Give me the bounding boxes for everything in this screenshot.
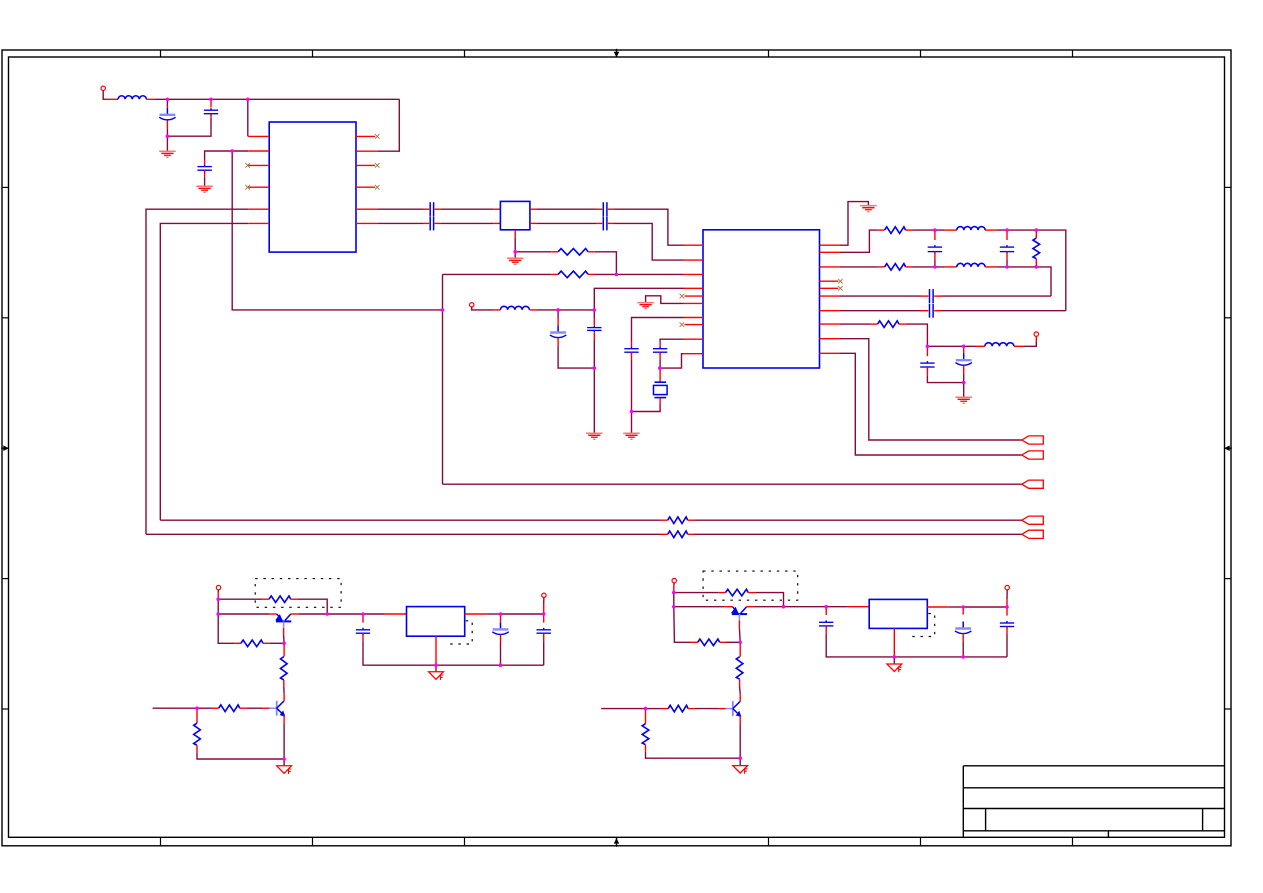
pin stub right of resistor R17 [688, 708, 695, 710]
port P6 (reg2 output) [1005, 585, 1009, 589]
crystal Y2 [654, 382, 668, 397]
capacitor C14 (series) [930, 289, 934, 303]
VR2 ground pin [893, 628, 895, 657]
wire crystal junction to U2 pin10 [660, 354, 684, 368]
junction VR2 ground [893, 655, 897, 659]
Q4 collector stub [739, 694, 741, 701]
top border center arrow [614, 49, 620, 57]
pin stub left of resistor R14 [719, 592, 726, 594]
wire RF loop vertical [442, 274, 444, 484]
wire C4 to oscillator Y1 [441, 208, 494, 210]
wire C13 bottom [1006, 260, 1008, 267]
pin stub top of resistor R5 [1035, 230, 1037, 238]
pin stub bottom of capacitor C18 [362, 633, 364, 641]
wire R14 to collector node [755, 593, 783, 607]
inductor L5 [985, 343, 1014, 347]
red stub P3 [217, 592, 219, 599]
resistor R5 [1033, 238, 1040, 259]
resistor R17 [668, 705, 688, 712]
resistor R16 [736, 657, 743, 679]
wire divider to R17 [646, 708, 662, 710]
capacitor C13 [1000, 245, 1014, 254]
red stub collector Q1 [291, 613, 299, 615]
wire C15 to row1 end [942, 310, 1066, 312]
pin stub top of capacitor C1 [166, 106, 168, 108]
capacitor C4 (series) [430, 202, 433, 216]
U1 pin 3 (left, no-connect) [248, 164, 269, 166]
pin stub left of resistor R6 [871, 323, 878, 325]
pin stub left of capacitor C5 [423, 222, 429, 224]
capacitor C6 (series) [603, 202, 607, 216]
pin stub bottom of capacitor C1 [166, 120, 168, 128]
pin stub right of capacitor C4 [435, 208, 441, 210]
wire U2 pin20 to ground [840, 202, 868, 246]
U2 pin 6 (left) [684, 302, 704, 304]
red stub base Q4 [718, 708, 726, 710]
connector CON3 [1022, 480, 1044, 488]
wire U1 pin6 rail to lower-left [160, 223, 248, 520]
junction RF net at loop [441, 308, 445, 312]
IC U2 [703, 230, 820, 368]
pin stub into Y1 lower-left [494, 222, 501, 224]
connector CON2 [1022, 451, 1044, 459]
pin stub top of capacitor C22 [962, 607, 964, 615]
pin stub left of inductor L1 [106, 98, 119, 100]
U2 pin 17 (right, no-connect) [820, 280, 839, 282]
wire Y1 bottom to ground junction [514, 238, 516, 252]
pin stub top of capacitor C20 [543, 614, 545, 623]
no-connect X on U1 pin 9 [375, 185, 380, 190]
capacitor C9 [587, 326, 601, 333]
pin stub top of capacitor C10 [631, 342, 633, 348]
pin stub bottom of capacitor C16 [926, 367, 928, 375]
pin stub top of resistor R16 [739, 642, 741, 657]
pin stub left of resistor R15 [691, 641, 698, 643]
pin stub top of resistor R11 [283, 643, 285, 656]
wire junction to ground [631, 412, 633, 434]
wire R11 to Q2 collector [283, 687, 285, 694]
junction filter row2 at R5 [1035, 265, 1039, 269]
red stub base Q3 [738, 621, 740, 629]
wire L2 to junctions [536, 309, 594, 311]
junction reg2 VOUT at C23 [1005, 605, 1009, 609]
pin stub left of resistor R12 [212, 707, 219, 709]
no-connect X on U1 pin 12 [375, 134, 380, 139]
wire U1 pin7 to series cap C5 [377, 222, 423, 224]
wire R1 to U2 pin3 net [595, 252, 617, 275]
wire R13 to ground rail [197, 752, 284, 759]
port P5 (reg2 input) [672, 578, 676, 582]
pin stub bottom of capacitor C20 [543, 633, 545, 641]
wire U2 pin12 to connector CON1 [840, 339, 1022, 440]
resistor R3 [885, 227, 906, 234]
wire VOUT to C20 [501, 613, 544, 615]
pin stub top of capacitor C11 [659, 342, 661, 348]
wire R2 junction to U2 pin3 [595, 273, 684, 275]
wire P3 down [217, 590, 219, 593]
port P3 (reg1 input) [216, 585, 220, 589]
pin stub bottom of capacitor C17 [963, 366, 965, 374]
wire base net corner R [674, 607, 691, 643]
wire C11 bottom to crystal junction [659, 359, 661, 368]
resistor R13 [194, 723, 201, 745]
VR2 output pin [927, 606, 948, 608]
capacitor C20 [537, 628, 551, 635]
U1 pin 5 (left) [248, 208, 269, 210]
red stub emitter Q3 [725, 606, 733, 608]
port P4 (reg1 output) [542, 593, 546, 597]
U1 pin 10 (right, no-connect) [356, 164, 375, 166]
Y1 bottom pin stub [514, 230, 516, 238]
capacitor C23 [1000, 621, 1014, 629]
junction R1/R2 net [615, 273, 619, 277]
inductor L3 [957, 227, 985, 231]
port P1 (top-left input) [101, 86, 105, 90]
wire top rail drop to U1 pin1 [247, 99, 249, 136]
pin stub left of resistor R3 [878, 229, 885, 231]
no-connect X on U2 pin 8 [680, 322, 685, 327]
wire RF loop to connector CON3 [443, 483, 1022, 485]
U2 pin 5 (left, no-connect) [685, 295, 704, 297]
U1 pin 1 (left) [248, 135, 269, 137]
pin stub top of capacitor C21 [825, 607, 827, 615]
wire R18 to ground rail R [646, 752, 741, 759]
capacitor C18 [356, 628, 370, 635]
pin stub bottom of capacitor C8 [557, 338, 559, 346]
red stub base Q2 [262, 707, 270, 709]
pin stub right of resistor R12 [240, 707, 247, 709]
capacitor C17 (electrolytic) [956, 353, 972, 365]
junction lower filter ground [962, 381, 966, 385]
pin stub right of capacitor C7 [608, 222, 614, 224]
pin stub bottom of resistor R5 [1035, 259, 1037, 267]
junction lower filter at C17 [962, 345, 966, 349]
voltage regulator VR1 [407, 607, 465, 637]
resistor R1 [558, 249, 588, 256]
wire U2 pin18 to R4 [840, 266, 878, 268]
pin stub top of resistor R13 [196, 708, 198, 723]
pin stub bottom of capacitor C23 [1006, 627, 1008, 635]
wire Q2 emitter down [283, 724, 285, 759]
wire C2 bottom loop to junction [167, 119, 211, 137]
wire C20 bottom [543, 641, 545, 665]
resistor R12 [219, 705, 240, 712]
U2 pin 13 (right) [820, 323, 841, 325]
pin stub bottom of capacitor C11 [659, 352, 661, 359]
oscillator Y1 box [500, 201, 530, 229]
resistor R8 [668, 531, 688, 538]
wire VOUT to C23 [963, 606, 1007, 608]
pin stub left of inductor L4 [945, 266, 957, 268]
transistor Q3 (PNP pass) [732, 607, 747, 621]
wire collector node to C21 [784, 606, 827, 608]
U2 pin 18 (right) [820, 266, 841, 268]
wire C23 bottom [1006, 635, 1008, 657]
pin stub right of capacitor C5 [435, 222, 441, 224]
red stub P6 [1006, 599, 1008, 607]
wire VR2 out to C22 [949, 606, 964, 608]
junction reg1 input lower [216, 612, 220, 616]
dashed box around R14 [703, 571, 798, 600]
pin stub right of inductor L5 [1014, 345, 1023, 347]
pin stub Y1 lower-right [530, 222, 537, 224]
wire P5 down [673, 583, 675, 586]
pin stub right of resistor R3 [906, 229, 913, 231]
wire R7 to connector CON4 [695, 519, 1022, 521]
wire C3 top to U1 pin2 net [205, 151, 249, 160]
junction filter row1 at C13 [1005, 228, 1009, 232]
bottom border center arrow [614, 838, 620, 847]
capacitor C21 [819, 620, 833, 628]
U1 pin 6 (left) [248, 222, 269, 224]
U2 pin 14 (right) [820, 310, 841, 312]
junction on top rail at C2 [209, 98, 213, 102]
resistor R15 [698, 639, 720, 646]
wire gnd rail mid [429, 664, 544, 666]
U2 pin 20 (right) [820, 244, 841, 246]
wire Q4 emitter down [739, 724, 741, 758]
resistor R14 (sense) [726, 589, 749, 596]
wire to ground triangle R [739, 758, 741, 765]
junction filter row2 at C13 [1005, 265, 1009, 269]
wire Q1 base down [283, 636, 286, 644]
resistor R4 [885, 264, 906, 271]
wire R12 to Q2 base [247, 707, 262, 709]
wire collector Q1 to node [299, 613, 328, 615]
dashed box around R9 [255, 579, 341, 608]
wire U2 pin9 to C11 [660, 339, 683, 341]
pin stub right of resistor R7 [688, 519, 695, 521]
wire C5 to oscillator Y1 [441, 222, 494, 224]
capacitor C1 (electrolytic) [159, 108, 175, 120]
wire C12 bottom [934, 260, 936, 267]
wire C14 to row2 end [942, 295, 1052, 297]
no-connect X on U2 pin 17 [838, 279, 843, 284]
ground below C9 [586, 433, 603, 439]
U2 pin 15 (right) [820, 295, 841, 297]
junction collector node Q1 [325, 612, 329, 616]
wire R6 to lower filter [906, 324, 928, 346]
capacitor C8 (electrolytic) [550, 326, 566, 338]
pin stub left of resistor R2 [551, 273, 558, 275]
red stub P5 [673, 586, 675, 593]
pin stub left of capacitor C4 [423, 208, 429, 210]
pin stub top of capacitor C16 [926, 346, 928, 356]
U2 pin 19 (right) [820, 251, 841, 253]
junction collector node Q3 [782, 605, 786, 609]
wire Y1 gnd stub [514, 252, 516, 258]
pin stub right of inductor L3 [985, 229, 997, 231]
wire C21 bottom to gnd rail R [826, 634, 886, 657]
pin stub bottom of capacitor C12 [934, 252, 936, 260]
wire rail U1 pin5 to R8 [146, 533, 661, 535]
ground at U2 pin 20 net [860, 206, 877, 212]
ground at U2 pin 6 [637, 303, 654, 309]
capacitor C19 (electrolytic) [492, 622, 508, 634]
wire P2 to inductor L2 [474, 309, 494, 311]
wire Y1 to series cap C6 [537, 208, 596, 210]
U2 pin 9 (left) [684, 338, 704, 340]
ground below C1 [159, 151, 176, 157]
U2 pin 3 (left) [684, 273, 704, 275]
U2 pin 4 (left) [684, 287, 704, 289]
Q2 emitter stub [283, 716, 285, 724]
VR1 ground pin [435, 636, 437, 665]
pin stub top of capacitor C19 [500, 614, 502, 622]
wire C18 bottom to gnd rail [363, 641, 429, 665]
pin stub top of crystal Y2 [659, 368, 661, 382]
pin stub right of inductor L1 [146, 98, 154, 100]
pin stub bottom of capacitor C19 [500, 635, 502, 643]
dashed outline at VR2 [911, 614, 935, 637]
pin stub right of resistor R9 [291, 598, 298, 600]
junction reg2 input lower [672, 605, 676, 609]
wire net RF loop top [443, 273, 552, 275]
no-connect X on U1 pin 3 [245, 163, 250, 168]
pin stub right of resistor R1 [588, 251, 595, 253]
capacitor C12 [928, 245, 942, 254]
pin stub top of capacitor C3 [204, 160, 206, 165]
junction Q4 base divider [644, 707, 648, 711]
capacitor C2 [204, 108, 218, 116]
pin stub right of resistor R10 [263, 642, 270, 644]
wire C1 bottom to junction [166, 128, 168, 136]
capacitor C7 (series) [603, 216, 607, 230]
wire divider to R12 [197, 707, 212, 709]
pin stub left of inductor L3 [945, 229, 957, 231]
wire U1 pin5 rail to lower-left [146, 209, 248, 534]
U1 pin 8 (right) [356, 208, 377, 210]
pin stub top of capacitor C9 [593, 318, 595, 325]
red stub emitter Q1 [269, 613, 277, 615]
junction C22 ground rail [961, 655, 965, 659]
junction reg1 VOUT at C20 [542, 612, 546, 616]
wire VR1 gnd to triangle [435, 665, 437, 672]
wire sense net to R9 [218, 598, 262, 600]
wire L3 to row1 end [997, 230, 1066, 311]
wire VR1 out to C19 [486, 613, 500, 615]
junction Q2 emitter ground [282, 757, 286, 761]
pin stub top of capacitor C8 [557, 318, 559, 326]
junction Q2 base divider [195, 706, 199, 710]
junction reg2 VOUT at C22 [961, 605, 965, 609]
pin stub right of capacitor C15 [934, 310, 941, 312]
wire junction to ground below C1 [166, 136, 168, 151]
wire C16 bottom to junction [927, 375, 963, 382]
junction reg1 input top [216, 597, 220, 601]
capacitor C15 (series) [930, 304, 934, 318]
wire R15 to base junction [727, 641, 741, 643]
wire VR2 gnd to triangle [893, 657, 895, 664]
U1 pin 7 (right) [356, 222, 377, 224]
wire R3 to L3 [912, 229, 944, 231]
junction below C1 [166, 134, 170, 138]
wire U2 pin14 to C15 [840, 310, 921, 312]
pin stub left of capacitor C6 [596, 208, 602, 210]
pin stub bottom of resistor R18 [645, 745, 647, 752]
wire C18 to VR1 [363, 613, 385, 615]
power ground below VR1 [429, 672, 444, 680]
pin stub right of inductor L4 [985, 266, 997, 268]
U1 pin 11 (right) [356, 150, 377, 152]
U2 pin 12 (right) [820, 338, 841, 340]
no-connect X on U1 pin 4 [245, 185, 250, 190]
wire C9 bottom to junction [593, 340, 595, 368]
junction reg1 VIN [361, 612, 365, 616]
ground below C10 [623, 433, 640, 439]
inductor L4 [957, 263, 985, 267]
pin stub bottom of capacitor C10 [631, 352, 633, 359]
Q4 emitter stub [739, 716, 741, 724]
resistor R6 [878, 321, 899, 328]
junction at C9/U2 pin4 net [593, 308, 597, 312]
pin stub left of capacitor C15 [921, 310, 928, 312]
capacitor C22 (electrolytic) [955, 622, 971, 634]
wire U1 pin2 net down to RF net [232, 151, 442, 310]
connector CON4 [1022, 516, 1044, 524]
wire U2 pin19 riser [840, 230, 878, 252]
connector CON5 [1022, 530, 1044, 538]
wire collector Q3 to node [754, 606, 783, 608]
junction Q4 emitter ground [738, 756, 742, 760]
IC U1 [269, 122, 356, 252]
wire junction to C9 [593, 310, 595, 318]
wire Q4 base stub [601, 708, 645, 710]
U1 pin 2 (left) [248, 150, 269, 152]
wire reg2 input vertical [673, 593, 675, 607]
wire R17 to Q4 base [695, 708, 718, 710]
power ground below Q4 [733, 766, 748, 774]
Q2 collector stub [283, 694, 285, 701]
wire C10 bottom to ground junction [631, 359, 633, 411]
pin stub right of resistor R6 [899, 323, 906, 325]
ground below Y1 [507, 258, 524, 264]
wire base net corner [218, 614, 234, 643]
capacitor C10 [624, 347, 638, 355]
VR1 input pin [385, 613, 407, 615]
pin stub top of capacitor C13 [1006, 230, 1008, 240]
pin stub right of resistor R14 [748, 592, 755, 594]
junction at C8 [556, 308, 560, 312]
pin stub top of capacitor C23 [1006, 607, 1008, 616]
pin stub left of capacitor C7 [596, 222, 602, 224]
wire L5 to port P7 [1023, 341, 1036, 346]
wire C8 bottom to junction [558, 346, 594, 368]
red stub P4 [543, 603, 545, 614]
U1 pin 12 (right, no-connect) [356, 135, 375, 137]
wire C17 bottom to junction [963, 373, 965, 382]
pin stub top of resistor R18 [645, 709, 647, 724]
wire U2 pin7 to C10 [632, 318, 684, 342]
pin stub right of inductor L2 [529, 309, 536, 311]
pin stub bottom of capacitor C2 [210, 114, 212, 119]
ground below C17 [955, 397, 972, 403]
dashed outline at VR1 [447, 621, 472, 644]
wire R4 to L4 [912, 266, 944, 268]
junction reg2 VIN [824, 605, 828, 609]
wire rail U1 pin6 to R7 [160, 519, 661, 521]
junction on top rail at C1 [166, 98, 170, 102]
wire U2 pin13 to R6 [840, 323, 871, 325]
pin stub bottom of resistor R13 [196, 745, 198, 752]
wire junction to C8 [557, 310, 559, 318]
junction Q3 base net [738, 641, 742, 645]
capacitor C3 [197, 165, 211, 173]
pin stub into Y1 upper-left [494, 208, 501, 210]
wire junction to ground [593, 368, 595, 433]
U1 pin 9 (right, no-connect) [356, 186, 375, 188]
junction reg2 input top [672, 591, 676, 595]
